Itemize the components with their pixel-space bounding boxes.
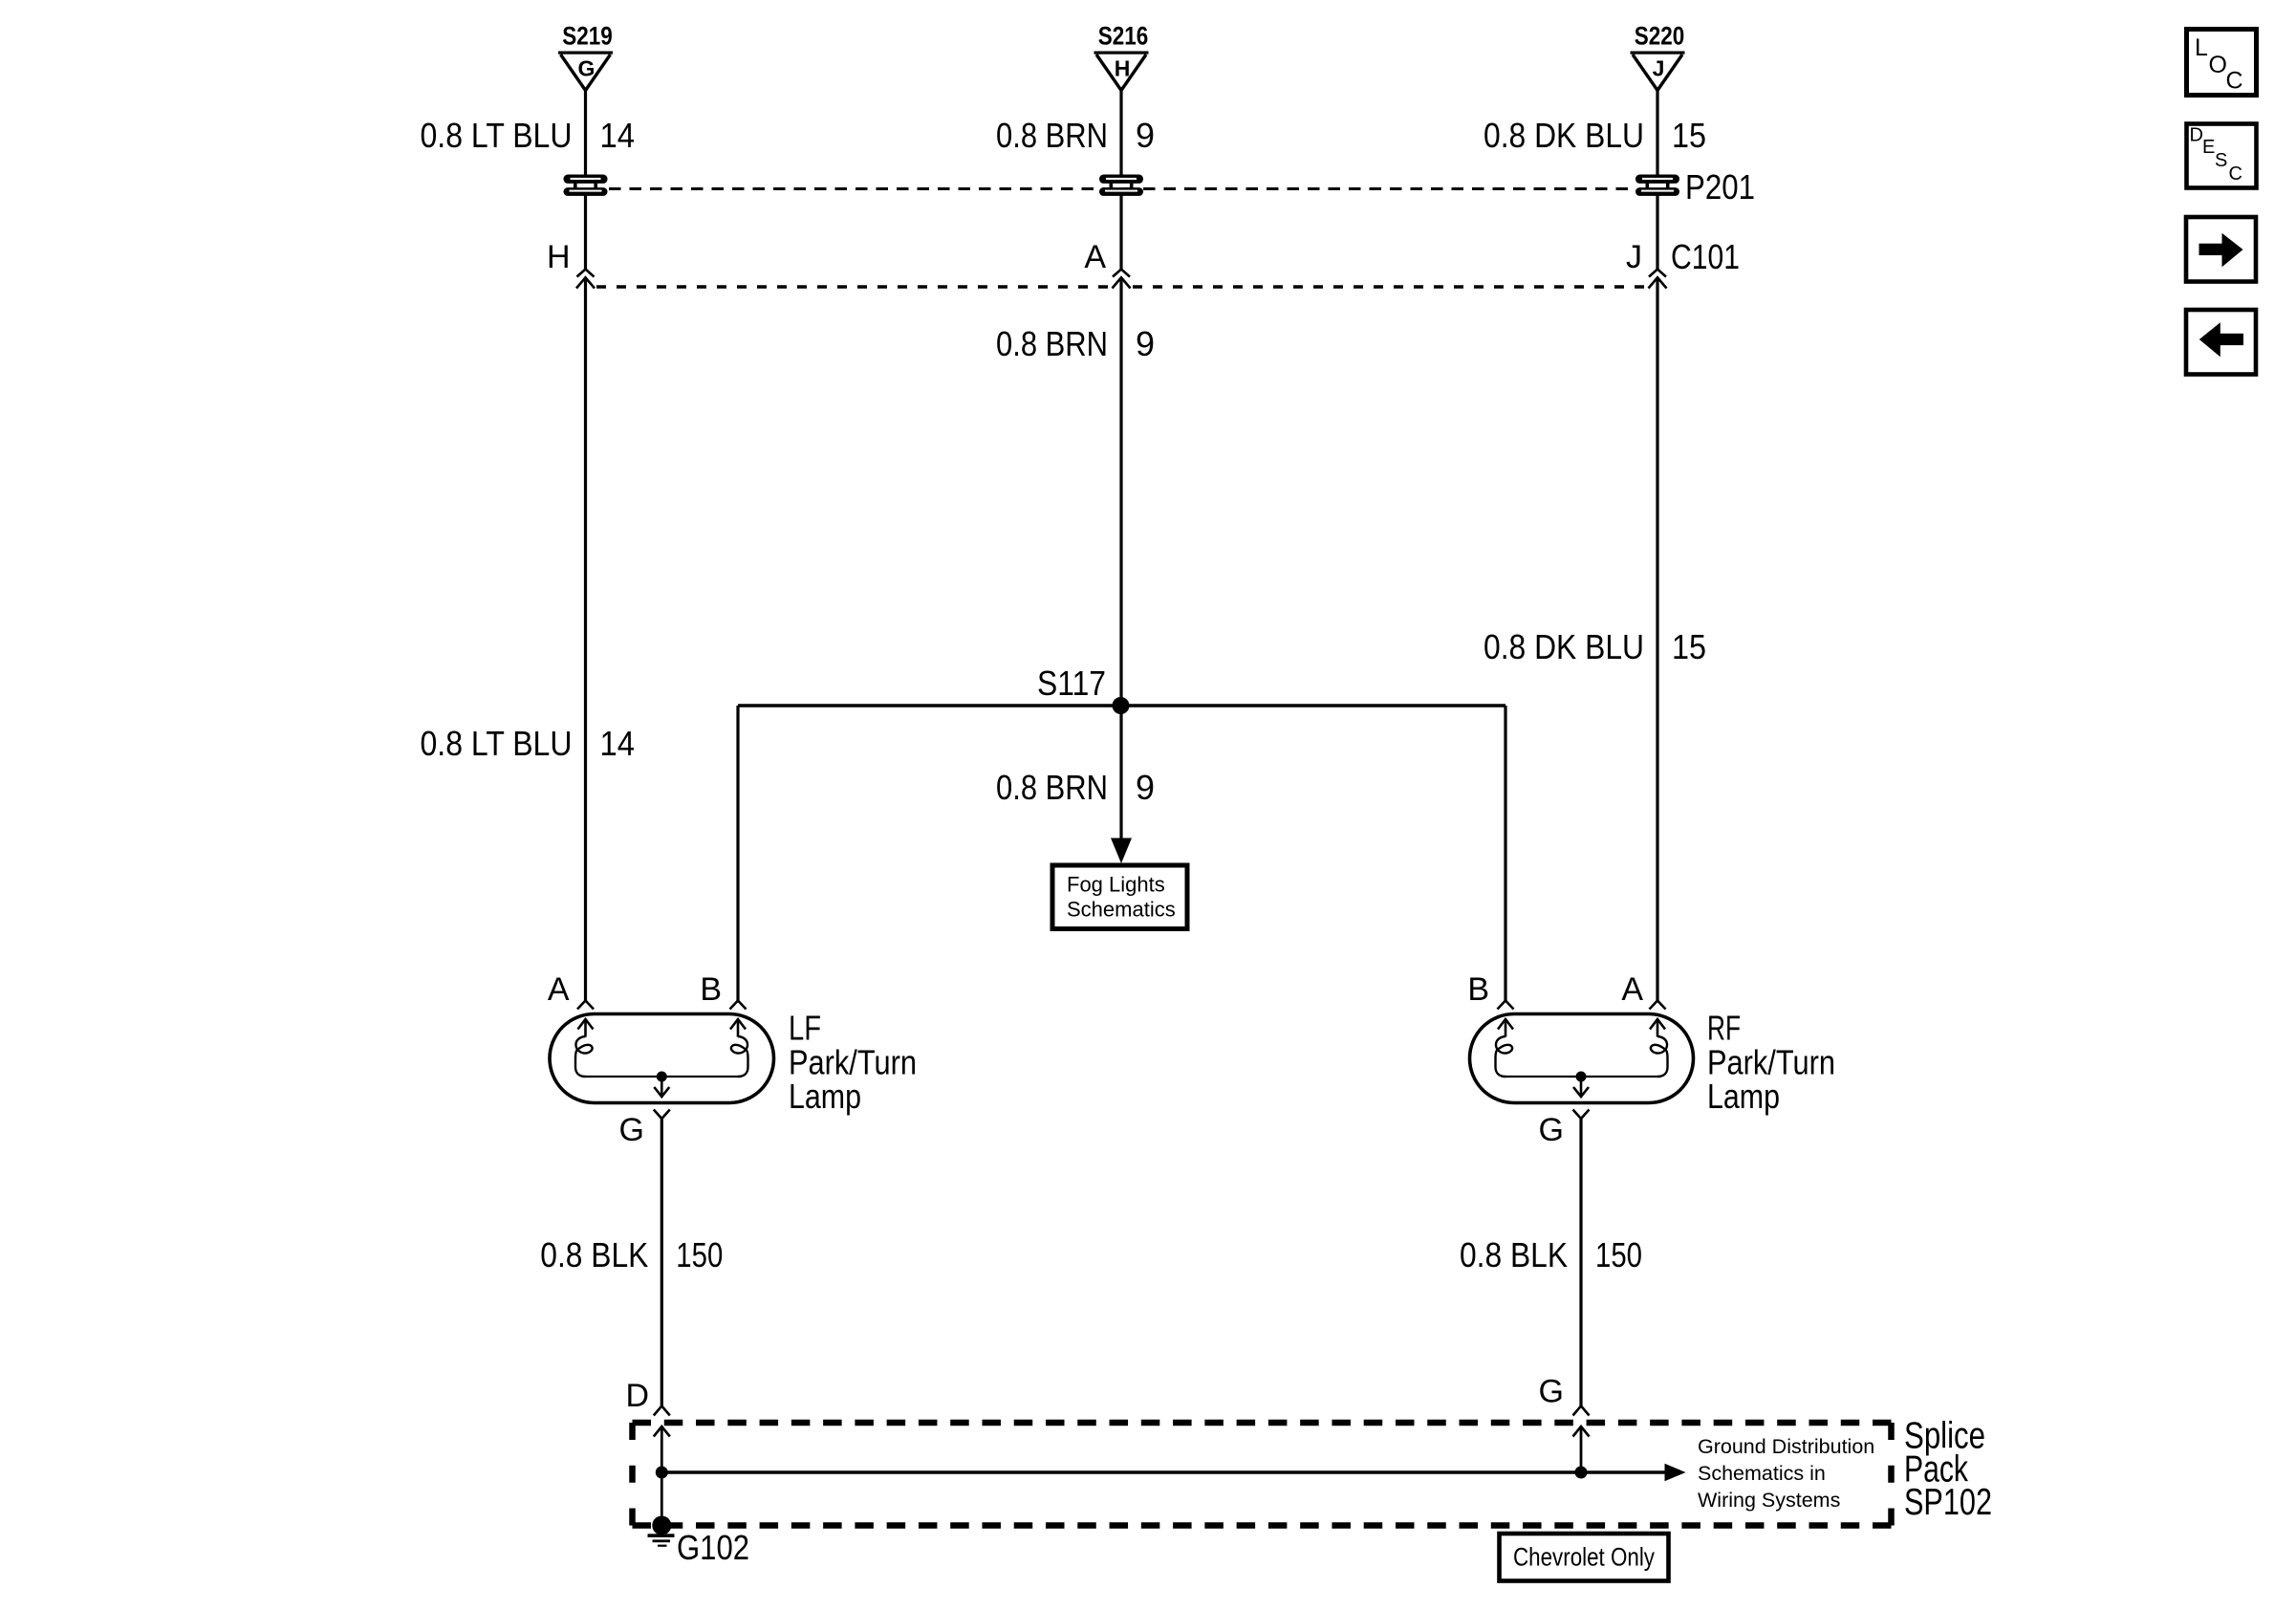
svg-text:O: O [2209,52,2227,78]
lamp internal junction [657,1072,667,1082]
svg-text:L: L [2195,34,2208,61]
lamp filament coil [1496,1036,1513,1077]
grommet pass-through P201 (column 2) [1099,175,1143,196]
svg-text:G: G [578,56,596,81]
wire: LF lamp G to splice pack SP102, 0.8 BLK 150 [661,1119,663,1406]
svg-text:14: 14 [600,116,636,155]
svg-text:0.8 BRN: 0.8 BRN [996,768,1108,807]
lamp outline LF Park/Turn Lamp [550,1014,774,1103]
svg-text:J: J [1626,239,1642,275]
grommet pass-through P201 (column 1) [564,175,608,196]
reference box: Fog Lights Schematics [1052,865,1187,929]
svg-text:B: B [1467,971,1489,1008]
svg-text:0.8 DK BLU: 0.8 DK BLU [1484,116,1644,155]
wire: splice pack internal bus to ground distribution [661,1470,1666,1473]
svg-text:9: 9 [1136,324,1155,363]
lamp terminal B: connector fork and arrow [1498,1001,1514,1037]
wire: bus to ground G102 [661,1472,663,1526]
svg-text:Schematics: Schematics [1067,898,1176,922]
svg-text:Lamp: Lamp [789,1077,861,1116]
svg-text:0.8 LT BLU: 0.8 LT BLU [421,724,573,763]
svg-text:A: A [548,971,570,1008]
wire: P201 to connector C101 pin A, 0.8 BRN [1119,196,1122,270]
lamp terminal G: arrow and fork [654,1077,670,1119]
icon box arrow right [2186,217,2256,282]
lamp filament coil [1651,1036,1668,1077]
wire: RF lamp G to splice pack SP102, 0.8 BLK 150 [1579,1119,1582,1406]
svg-text:15: 15 [1672,116,1706,155]
svg-text:SP102: SP102 [1904,1482,1992,1523]
lamp terminal A: connector fork and arrow [577,1001,594,1037]
wire: S216 splice to grommet P201, 0.8 BRN circuit 9 [1119,90,1122,176]
svg-text:P201: P201 [1685,167,1755,207]
icon box LOC [2187,30,2257,96]
splice pack SP102 dashed outline [633,1423,1892,1526]
icon box DESC [2187,124,2257,188]
svg-text:A: A [1621,971,1643,1008]
wire: S117 horizontal distribution [738,704,1505,707]
dashed bulkhead line P201 [609,187,1635,190]
wire: C101 H to LF park/turn lamp pin A, 0.8 LT BLU 14 [584,277,587,1000]
svg-text:LF: LF [789,1009,821,1048]
wire: C101 J to RF park/turn lamp pin A, 0.8 DK BLU 15 [1656,277,1658,1000]
svg-text:J: J [1653,56,1665,81]
svg-text:E: E [2202,137,2215,158]
svg-text:S216: S216 [1098,22,1149,51]
svg-text:150: 150 [1595,1235,1642,1274]
svg-text:Ground Distribution: Ground Distribution [1698,1435,1874,1458]
lamp terminal G: arrow and fork [1573,1077,1590,1119]
svg-text:Lamp: Lamp [1707,1077,1780,1116]
svg-text:9: 9 [1136,768,1155,807]
svg-text:Wiring Systems: Wiring Systems [1698,1489,1840,1512]
svg-text:H: H [547,239,571,275]
svg-text:S219: S219 [562,22,613,51]
svg-text:Fog Lights: Fog Lights [1067,873,1165,897]
icon box arrow left [2186,310,2256,375]
grommet pass-through P201 (column 3) [1635,175,1679,196]
junction on bus (right) [1575,1467,1588,1479]
svg-text:0.8 BRN: 0.8 BRN [996,324,1108,363]
svg-text:G102: G102 [677,1528,749,1567]
splice symbol S220 (triangle J) [1631,22,1685,91]
lamp internal common wire [585,1076,738,1078]
splice symbol S219 (triangle G) [558,22,613,91]
note box: Chevrolet Only [1500,1534,1669,1581]
svg-text:C: C [2226,68,2243,95]
svg-text:S: S [2215,150,2227,171]
lamp terminal A: connector fork and arrow [1650,1001,1666,1037]
junction S117 [1113,697,1130,714]
svg-text:G: G [1539,1374,1564,1410]
svg-text:H: H [1115,56,1131,81]
lamp terminal B: connector fork and arrow [730,1001,747,1037]
wire: S117 to fog lights schematics, 0.8 BRN 9 [1119,706,1122,839]
lamp internal common wire [1505,1076,1657,1078]
wire: P201 to connector C101 pin J, 0.8 DK BLU [1656,196,1658,270]
ground G102 junction dot [652,1516,671,1535]
svg-text:15: 15 [1672,627,1706,666]
lamp outline RF Park/Turn Lamp [1470,1014,1694,1103]
connector C101 terminal J (fork and arrow) [1649,270,1667,289]
wire: S220 splice to grommet P201, 0.8 DK BLU circuit 15 [1656,90,1658,176]
svg-text:Schematics in: Schematics in [1698,1462,1826,1485]
arrow to ground distribution schematics [1665,1464,1686,1481]
splice symbol S216 (triangle H) [1094,22,1149,91]
splice pack terminal D (fork and arrow) [654,1406,670,1473]
wire: S117 right branch down to RF lamp pin B [1504,706,1506,1001]
svg-text:9: 9 [1136,116,1155,155]
svg-text:B: B [700,971,722,1008]
lamp filament coil [575,1036,593,1077]
svg-text:14: 14 [600,724,636,763]
svg-text:0.8 BLK: 0.8 BLK [1460,1235,1568,1274]
wire: P201 to connector C101 pin H, 0.8 LT BLU [584,196,587,270]
svg-text:D: D [2190,125,2203,146]
svg-text:0.8 BRN: 0.8 BRN [996,116,1108,155]
svg-text:0.8 LT BLU: 0.8 LT BLU [421,116,573,155]
svg-text:RF: RF [1707,1009,1741,1048]
svg-text:Chevrolet Only: Chevrolet Only [1513,1543,1655,1572]
lamp internal junction [1576,1072,1587,1082]
svg-text:S220: S220 [1635,22,1685,51]
svg-text:0.8 DK BLU: 0.8 DK BLU [1484,627,1644,666]
svg-text:A: A [1084,239,1106,275]
svg-text:150: 150 [676,1235,723,1274]
junction on bus (left) [656,1467,668,1479]
svg-text:0.8 BLK: 0.8 BLK [540,1235,648,1274]
svg-text:S117: S117 [1037,664,1106,703]
svg-text:G: G [619,1112,644,1148]
arrow to fog lights schematics [1111,838,1132,864]
connector C101 terminal A (fork and arrow) [1113,270,1131,289]
ground symbol G102 [648,1534,675,1546]
splice pack terminal G (fork and arrow) [1573,1406,1590,1473]
svg-text:D: D [625,1378,649,1414]
wire: S219 splice to grommet P201, 0.8 LT BLU circuit 14 [584,90,587,176]
connector C101 terminal H (fork and arrow) [576,270,595,289]
wire: C101 A to splice S117, 0.8 BRN 9 [1119,277,1122,706]
wire: S117 left branch down to LF lamp pin B [736,706,739,1001]
lamp filament coil [731,1036,748,1077]
svg-text:C: C [2229,163,2242,185]
dashed connector line C101 [596,285,1110,288]
svg-text:G: G [1539,1112,1564,1148]
svg-text:C101: C101 [1671,237,1740,276]
